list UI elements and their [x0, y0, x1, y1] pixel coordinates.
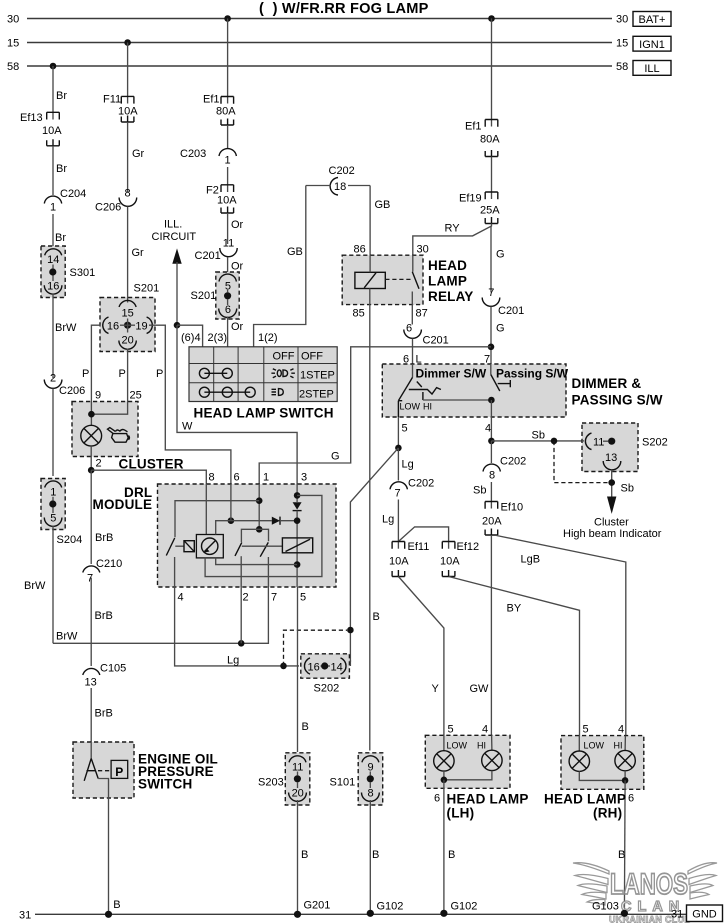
svg-text:4: 4 [482, 724, 488, 736]
svg-text:LOW: LOW [584, 741, 605, 751]
svg-text:C201: C201 [498, 305, 524, 317]
wire S101 to G102 [369, 800, 371, 913]
svg-text:10A: 10A [440, 556, 460, 568]
svg-text:1: 1 [263, 472, 269, 484]
svg-text:RELAY: RELAY [428, 289, 474, 304]
wire Sb to S202 [491, 440, 586, 442]
wire RY to relay 30 [413, 224, 492, 272]
wire 15 to F11 [127, 43, 129, 104]
junction on bus 58 [50, 63, 57, 70]
svg-text:PASSING S/W: PASSING S/W [572, 393, 663, 408]
svg-text:8: 8 [209, 472, 215, 484]
svg-text:Ef12: Ef12 [457, 541, 480, 553]
svg-text:6: 6 [406, 323, 412, 335]
connector C203 pin 1 [219, 149, 236, 156]
svg-text:1: 1 [225, 155, 231, 167]
wire F11 to C206-8 [127, 122, 129, 192]
wire C105 to oil pressure switch [90, 688, 92, 759]
wire S201-16 to cluster pin 9 [91, 325, 100, 401]
svg-text:GND: GND [692, 909, 717, 921]
svg-text:11: 11 [223, 238, 234, 250]
svg-text:( ) W/FR.RR FOG LAMP: ( ) W/FR.RR FOG LAMP [259, 1, 429, 17]
svg-text:4: 4 [485, 423, 491, 435]
wire LgB Ef10 to RH HI [497, 536, 626, 751]
svg-text:Ef11: Ef11 [408, 541, 430, 553]
fuse F2 10A [221, 185, 234, 213]
svg-text:OFF: OFF [273, 351, 295, 363]
svg-text:6: 6 [234, 472, 240, 484]
junction on bus 30 (middle column) [224, 15, 231, 22]
svg-text:G: G [496, 249, 505, 261]
bus 15 [27, 42, 612, 44]
DRL internal: left switch [166, 538, 174, 556]
svg-text:BrB: BrB [95, 708, 113, 720]
svg-text:4: 4 [178, 592, 184, 604]
svg-text:20A: 20A [482, 516, 502, 528]
svg-text:C202: C202 [408, 478, 434, 490]
wire node to switch col1 [177, 325, 203, 347]
svg-text:80A: 80A [216, 106, 236, 118]
cluster oil can icon [108, 428, 131, 443]
lamp RH LOW [569, 751, 589, 771]
svg-text:80A: 80A [480, 134, 500, 146]
connector C105 pin 13 [83, 668, 100, 675]
svg-text:C204: C204 [60, 188, 86, 200]
svg-text:5: 5 [583, 724, 589, 736]
connector C201 pin 11 [220, 248, 237, 257]
splice S202 (11/13) [582, 423, 668, 472]
svg-text:SWITCH: SWITCH [138, 777, 192, 792]
wire C202-8 to Ef10 [490, 482, 492, 509]
LH lamp common wires [444, 771, 492, 780]
svg-text:7: 7 [271, 592, 277, 604]
DRL internal: pin3 rail + diode down [296, 484, 298, 502]
svg-text:15: 15 [121, 308, 133, 320]
passing switch arm [491, 375, 511, 392]
wire GB left branch to switch col3 [254, 186, 306, 347]
svg-text:6: 6 [225, 304, 231, 316]
terminal box GND [687, 905, 723, 922]
wire dimmer 5 output [397, 417, 399, 448]
svg-text:BY: BY [507, 603, 522, 615]
svg-text:8: 8 [368, 788, 374, 800]
svg-text:1: 1 [50, 202, 56, 214]
wire L to dimmer [412, 339, 414, 378]
svg-text:G: G [496, 323, 505, 335]
ground node G103 (RH) [621, 910, 628, 917]
svg-text:ILL.: ILL. [164, 219, 182, 231]
splice S203 [258, 753, 310, 805]
svg-text:S202: S202 [314, 683, 340, 695]
wire 58 to Ef13 [52, 66, 54, 120]
ground node G102 (LH) [440, 910, 447, 917]
svg-text:B: B [618, 849, 625, 861]
RH lamp inner stubs [578, 736, 580, 752]
CLUSTER box [72, 402, 138, 457]
svg-text:16: 16 [107, 321, 119, 333]
svg-text:16: 16 [47, 281, 59, 293]
svg-text:CLUSTER: CLUSTER [119, 457, 184, 472]
svg-text:31: 31 [19, 910, 31, 922]
svg-text:6: 6 [434, 793, 440, 805]
wire DRL pin 2 [240, 587, 242, 643]
junction Lg dash node [280, 663, 287, 670]
svg-text:BAT+: BAT+ [638, 14, 665, 26]
passing 7 inner stub [490, 364, 492, 375]
DRL internal: diode to pin3 rail [231, 520, 272, 522]
relay pin 87 stub [411, 292, 413, 325]
DRL internal: switch arms 2/7 [235, 542, 268, 556]
svg-text:1STEP: 1STEP [300, 370, 335, 382]
svg-text:B: B [113, 899, 120, 911]
wire S202-13 down [611, 470, 613, 498]
P actuator box [111, 760, 128, 778]
wire C206-8 to S201 [127, 207, 129, 305]
connector C202 pin 7 [390, 482, 407, 489]
wire GW Ef10 to LH HI [490, 535, 492, 750]
svg-text:Ef10: Ef10 [501, 502, 524, 514]
wire G branch to DRL pin 1 [259, 347, 491, 489]
watermark LANOS CLAN [573, 863, 717, 924]
svg-text:G: G [331, 451, 340, 463]
svg-text:HI: HI [614, 741, 623, 751]
arrow to illumination circuit [172, 248, 181, 263]
svg-text:30: 30 [7, 14, 19, 26]
svg-text:19: 19 [135, 321, 147, 333]
DIMMER & PASSING S/W box [382, 364, 566, 417]
svg-text:OFF: OFF [301, 351, 323, 363]
DRL MODULE box [158, 484, 337, 587]
DRL internal: relay coil right [282, 538, 312, 553]
svg-text:18: 18 [334, 181, 346, 193]
svg-text:Ef13: Ef13 [20, 112, 43, 124]
svg-text:11: 11 [593, 437, 604, 449]
wire Ef13 to C204 [52, 146, 54, 195]
wire S203 to G201 [297, 800, 299, 914]
svg-text:HEAD LAMP: HEAD LAMP [447, 792, 529, 807]
fuse F11 10A [121, 96, 134, 122]
svg-text:W: W [182, 421, 193, 433]
svg-text:B: B [302, 721, 309, 733]
svg-text:8: 8 [489, 470, 495, 482]
svg-text:6: 6 [628, 793, 634, 805]
relay switch arm [412, 272, 419, 289]
wire Ef1 to Ef19 [491, 157, 493, 200]
svg-text:Lg: Lg [402, 459, 414, 471]
svg-text:HEAD LAMP SWITCH: HEAD LAMP SWITCH [194, 406, 334, 421]
fuse Ef19 25A [485, 192, 498, 224]
svg-text:2STEP: 2STEP [299, 389, 334, 401]
wire C203 to F2 [227, 167, 229, 192]
svg-text:GB: GB [375, 199, 391, 211]
svg-text:LANOS: LANOS [610, 868, 688, 901]
DRL internal: pin1 rail [258, 484, 260, 529]
splice S201 (5/6) [191, 272, 240, 319]
svg-text:Ef1: Ef1 [203, 94, 220, 106]
svg-text:4: 4 [618, 724, 624, 736]
svg-text:7: 7 [488, 287, 494, 299]
wire GB right branch to relay 86 [369, 186, 371, 273]
svg-text:S204: S204 [57, 534, 83, 546]
svg-text:Ef19: Ef19 [459, 193, 482, 205]
wire S202-14 entry [349, 660, 351, 666]
svg-text:Lg: Lg [227, 655, 239, 667]
svg-text:G201: G201 [304, 900, 331, 912]
svg-text:BrB: BrB [95, 610, 113, 622]
wire S201-19 to DRL pin 6 [149, 325, 231, 489]
junction on bus 15 [124, 39, 131, 46]
junction on bus 30 (right column) [488, 15, 495, 22]
junction Lg node [395, 445, 402, 452]
oil switch inner stub [90, 742, 92, 759]
svg-text:G102: G102 [377, 901, 404, 913]
wire relay 85 down (B) [369, 310, 371, 751]
wire Ef1 to C203 [227, 125, 229, 148]
svg-text:Lg: Lg [382, 514, 394, 526]
HEAD LAMP SWITCH table [189, 347, 337, 402]
svg-text:30: 30 [417, 244, 429, 256]
svg-text:5: 5 [402, 423, 408, 435]
wire C210 to C105 [90, 578, 92, 667]
svg-text:(6)4: (6)4 [181, 332, 201, 344]
svg-text:25A: 25A [480, 205, 500, 217]
ENGINE OIL PRESSURE SWITCH box [73, 742, 134, 798]
svg-text:HI: HI [423, 402, 432, 412]
wire BrW horizontal to DRL pins 2/7 [53, 587, 268, 643]
junction Sb node [488, 438, 495, 445]
svg-text:1: 1 [50, 487, 56, 499]
switch contacts row 1STEP [199, 368, 232, 378]
svg-text:DIMMER &: DIMMER & [572, 376, 642, 391]
DRL internal: control unit with motor [196, 535, 223, 558]
svg-text:Y: Y [432, 683, 440, 695]
icon head lamp low [272, 389, 284, 396]
connector C202 pin 8 [483, 464, 500, 471]
svg-text:P: P [115, 765, 123, 779]
connector C210 pin 7 [83, 566, 100, 573]
ground node B (oil switch) [105, 911, 112, 918]
oil pressure switch contact [84, 759, 98, 781]
splice S204 [41, 479, 82, 547]
svg-text:85: 85 [353, 308, 365, 320]
wire branch to Ef12 [398, 527, 448, 549]
svg-text:HEAD LAMP: HEAD LAMP [544, 792, 626, 807]
svg-text:15: 15 [7, 38, 19, 50]
svg-text:S203: S203 [258, 777, 284, 789]
DRL internal: pin6 node [228, 517, 235, 524]
fuse Ef1 80A (right) [485, 120, 498, 157]
svg-text:Br: Br [55, 232, 66, 244]
junction DRL pin2 node [238, 640, 245, 647]
svg-text:20: 20 [292, 788, 304, 800]
wire C201-11 to S201 [227, 257, 229, 273]
svg-text:14: 14 [331, 662, 343, 674]
svg-text:13: 13 [605, 452, 617, 464]
splice S201 (4-way) [100, 283, 159, 352]
arrow to cluster high beam indicator [607, 497, 616, 514]
connector C201 pin 6 [404, 330, 422, 339]
DRL pin 2 stub [240, 556, 242, 587]
junction node in cluster [88, 411, 95, 418]
HEAD LAMP RELAY box [342, 255, 423, 304]
connector C206 pin 2 [44, 380, 62, 389]
svg-text:Cluster: Cluster [594, 517, 629, 529]
wire DRL pin5 to S203 [297, 587, 299, 752]
dashed variant link to S202 [284, 630, 348, 666]
wire C204 to S301 [52, 214, 54, 250]
DRL internal: loop from unit to pin3 top [205, 495, 322, 576]
svg-text:LAMP: LAMP [428, 274, 467, 289]
wire F2 to C201-11 [227, 213, 229, 244]
svg-text:Gr: Gr [132, 247, 145, 259]
svg-text:58: 58 [7, 61, 19, 73]
svg-text:7: 7 [87, 573, 93, 585]
svg-text:2: 2 [50, 373, 56, 385]
DRL pin 4 wire [175, 557, 299, 666]
switch contacts row 2STEP [199, 387, 255, 397]
lamp LH LOW [434, 751, 454, 771]
terminal box BAT+ [633, 12, 671, 27]
cluster illumination lamp [81, 425, 102, 446]
svg-text:B: B [448, 849, 455, 861]
ground node G201 [294, 911, 301, 918]
DRL internal: left branch [175, 501, 259, 538]
wire Lg diagonal to S202-14 [350, 448, 398, 662]
svg-text:S201: S201 [134, 283, 160, 295]
svg-text:C206: C206 [95, 202, 121, 214]
svg-text:10A: 10A [118, 106, 138, 118]
wire Y Ef11 to LH LOW [398, 577, 444, 751]
DRL internal: double switch bracket [241, 529, 268, 542]
relay coil [355, 272, 385, 288]
wire dimmer 4 output [490, 400, 492, 441]
svg-text:GB: GB [287, 246, 303, 258]
svg-text:10A: 10A [217, 195, 237, 207]
junction Sb dash node [551, 438, 558, 445]
svg-text:MODULE: MODULE [93, 497, 153, 512]
svg-text:ILL: ILL [644, 63, 659, 75]
junction dimmer-HI node [488, 397, 495, 404]
svg-text:F11: F11 [103, 94, 121, 106]
relay coil wire through [369, 255, 371, 272]
svg-text:(RH): (RH) [593, 806, 622, 821]
splice S101 [330, 753, 383, 805]
svg-text:14: 14 [47, 254, 59, 266]
wire Lg node to C202-7 [397, 448, 399, 481]
bus 58 [27, 65, 612, 67]
fuse Ef11 10A [392, 542, 405, 577]
svg-text:S201: S201 [191, 290, 217, 302]
wire dimmer4 to C202-8 [490, 441, 492, 463]
svg-text:LgB: LgB [521, 554, 541, 566]
DRL internal: arm link to relay coil [242, 545, 283, 547]
svg-text:C201: C201 [423, 335, 449, 347]
wire LH to G102 [443, 780, 445, 914]
svg-text:31: 31 [671, 909, 683, 921]
svg-text:Br: Br [56, 163, 67, 175]
svg-text:30: 30 [616, 14, 628, 26]
HEAD LAMP (LH) box [425, 735, 510, 788]
svg-text:13: 13 [85, 677, 97, 689]
icon park lamp [271, 369, 295, 378]
junction cluster pin 2 [88, 467, 95, 474]
svg-text:G103: G103 [592, 901, 619, 913]
svg-text:B: B [301, 849, 308, 861]
svg-text:15: 15 [616, 38, 628, 50]
bus 30 [27, 18, 612, 20]
svg-text:10A: 10A [389, 556, 409, 568]
splice S202 (16/14) [301, 654, 350, 695]
svg-text:Or: Or [231, 321, 244, 333]
wire W node down [177, 325, 297, 489]
connector C201 pin 7 [482, 298, 500, 307]
svg-text:S301: S301 [70, 267, 96, 279]
cluster pin 25 inner elbow [91, 402, 127, 415]
DRL internal: unit output to pin5 rail [216, 558, 297, 565]
svg-text:C210: C210 [96, 558, 122, 570]
svg-text:C105: C105 [100, 663, 126, 675]
svg-text:87: 87 [416, 308, 428, 320]
svg-text:BrW: BrW [24, 580, 46, 592]
svg-text:P: P [156, 368, 163, 380]
svg-text:C202: C202 [500, 456, 526, 468]
svg-text:Sb: Sb [532, 430, 545, 442]
svg-text:5: 5 [50, 513, 56, 525]
wire lamp to cluster pin 2 [90, 446, 92, 470]
wire C202-7 to Ef11 [397, 500, 399, 549]
dimmer switch arm [398, 377, 441, 417]
svg-text:HEAD: HEAD [428, 258, 467, 273]
ground node G102 (S101) [367, 910, 374, 917]
svg-text:C203: C203 [180, 148, 206, 160]
terminal box IGN1 [633, 36, 671, 51]
dashed fog-lamp variant link [554, 441, 608, 483]
svg-text:LOW: LOW [400, 402, 421, 412]
svg-text:Gr: Gr [132, 148, 145, 160]
svg-text:B: B [372, 849, 379, 861]
svg-text:GW: GW [470, 683, 490, 695]
svg-text:Or: Or [231, 219, 244, 231]
svg-text:2: 2 [96, 458, 102, 470]
svg-text:BrB: BrB [95, 532, 113, 544]
svg-text:16: 16 [308, 662, 320, 674]
svg-text:3: 3 [301, 472, 307, 484]
svg-text:58: 58 [616, 61, 628, 73]
wire C206 to S204 [52, 389, 54, 477]
svg-text:Dimmer S/W: Dimmer S/W [416, 367, 487, 381]
svg-text:Passing S/W: Passing S/W [496, 367, 569, 381]
svg-text:20: 20 [121, 335, 133, 347]
dimmer L inner stub [412, 364, 414, 377]
wire BrB cluster down [90, 470, 92, 564]
HEAD LAMP (RH) box [561, 736, 644, 790]
svg-text:S101: S101 [330, 777, 356, 789]
svg-text:Or: Or [231, 261, 244, 273]
svg-text:1(2): 1(2) [258, 332, 278, 344]
svg-text:Br: Br [56, 90, 67, 102]
svg-text:CIRCUIT: CIRCUIT [152, 231, 197, 243]
svg-text:8: 8 [125, 188, 131, 200]
svg-text:High beam Indicator: High beam Indicator [563, 528, 662, 540]
svg-text:G102: G102 [451, 901, 478, 913]
svg-text:86: 86 [354, 244, 366, 256]
svg-text:C201: C201 [195, 250, 221, 262]
fuse Ef13 10A [47, 112, 60, 146]
svg-text:S202: S202 [642, 437, 668, 449]
junction dashed node [347, 627, 354, 634]
svg-text:LOW: LOW [447, 741, 468, 751]
wire BY Ef12 to RH LOW [449, 577, 580, 752]
